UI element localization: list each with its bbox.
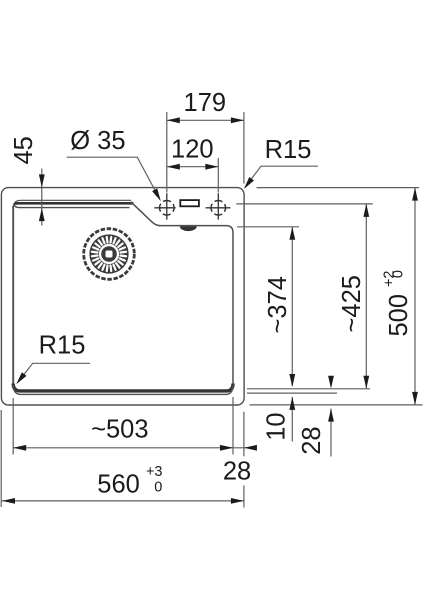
dimension line 560 [2,500,244,502]
deck rectangular knockout [180,200,199,206]
arrow 120 right [205,164,218,170]
sink outer outline 560x500 [1,188,244,405]
bowl bottom dark band [13,384,233,391]
svg-text:~374: ~374 [264,276,292,333]
svg-text:Ø 35: Ø 35 [70,127,125,155]
extension line bowl bottom inner [247,388,370,390]
arrow leader diameter 35 [152,188,163,202]
dimension line 10 tail [291,397,293,442]
arrow 425 bottom [363,376,369,389]
centerline [154,207,175,209]
extension line bowl left edge [12,398,14,455]
dimension line ~425 [365,204,367,389]
extension line sink right lower part [243,486,245,508]
faucet hole left circle Ø35 [160,201,175,216]
label 500 +2/0 (rotated) [382,270,413,337]
dimension line ~374 [291,227,293,386]
extension line sink left edge [0,410,2,507]
svg-text:~503: ~503 [91,415,148,443]
svg-text:R15: R15 [39,332,86,360]
arrow 10 bottom [289,397,295,410]
arrow 45 top [39,174,45,187]
arrow 560 left [2,498,15,504]
dimension line 28 right tail [330,409,332,457]
leader line R15 top right [245,166,318,187]
svg-text:0: 0 [391,270,407,278]
bowl deck front edge and right edge [159,226,233,385]
leader line diameter 35 [67,157,159,197]
label 10 (rotated) [262,412,290,440]
arrow 28 right bottom [328,409,334,422]
arrow 28 right top [328,376,334,389]
arrow R15 top [241,177,253,191]
arrow 560 right [231,498,244,504]
svg-text:560: 560 [97,470,140,498]
dimension line 120 [167,166,219,168]
arrow 425 top [363,204,369,217]
drain outer dashed ring [84,229,135,280]
extension line at sink right edge [243,112,245,184]
svg-text:10: 10 [262,412,290,440]
bowl bottom rim outer line [13,385,233,394]
arrow 179 left [167,117,180,123]
bowl deck step diagonal [131,202,160,226]
svg-text:45: 45 [10,136,38,164]
extension line bowl bottom outer [247,392,337,394]
extension line through right hole [217,158,219,193]
arrow 45 bottom [39,208,45,221]
dimension line 500 [414,188,416,405]
arrow 500 bottom [412,392,418,405]
svg-text:~425: ~425 [338,275,366,332]
label 45 (rotated) [10,136,38,164]
drain center disc [101,246,117,262]
arrow 374 bottom [289,374,295,387]
arrow 120 left [167,164,180,170]
svg-text:28: 28 [298,426,326,454]
arrow 503 right [220,445,233,451]
svg-text:0: 0 [154,479,162,495]
label 28 right (rotated) [298,426,326,454]
extension line bowl top edge [236,203,372,205]
svg-text:+3: +3 [146,464,163,480]
leader line R15 bottom left [18,363,91,382]
centerline [166,193,168,219]
centerline [217,193,219,219]
label ~374 (rotated) [264,276,292,333]
extension line deck front edge [237,226,299,228]
drain center square hole [106,251,113,258]
drain strainer annulus [94,239,124,269]
bowl top rim line 3 [14,204,129,208]
svg-text:120: 120 [171,135,214,163]
dimension line ~503 and 28 [13,447,257,449]
bowl outline left edge [12,206,14,385]
dimension line 179 [167,119,244,121]
svg-text:28: 28 [223,458,251,486]
svg-text:R15: R15 [265,136,312,164]
dimension line 45 [41,169,43,226]
faucet hole right circle Ø35 [211,201,226,216]
extension line sink right upper part [243,412,245,457]
label ~425 (rotated) [338,275,366,332]
drain strainer group [84,229,135,280]
extension line sink bottom edge [250,404,423,406]
arrow 500 top [412,188,418,201]
extension line sink top edge [257,187,420,189]
svg-text:179: 179 [184,89,227,117]
arrow 179 right [231,117,244,123]
bowl top rim line 1 [13,200,131,208]
extension line through left hole [166,112,168,193]
overflow slot half-ellipse [180,226,197,231]
arrow 503 left [13,445,26,451]
arrow R15 bottom [14,372,27,386]
arrow 28 bottom outside [244,445,257,451]
svg-text:500: 500 [385,294,413,337]
drain strainer slots [92,237,126,271]
arrow 374 top [289,227,295,240]
extension line bowl right edge [232,397,234,455]
centerline [206,207,231,209]
bowl top rim dark band [15,203,134,204]
